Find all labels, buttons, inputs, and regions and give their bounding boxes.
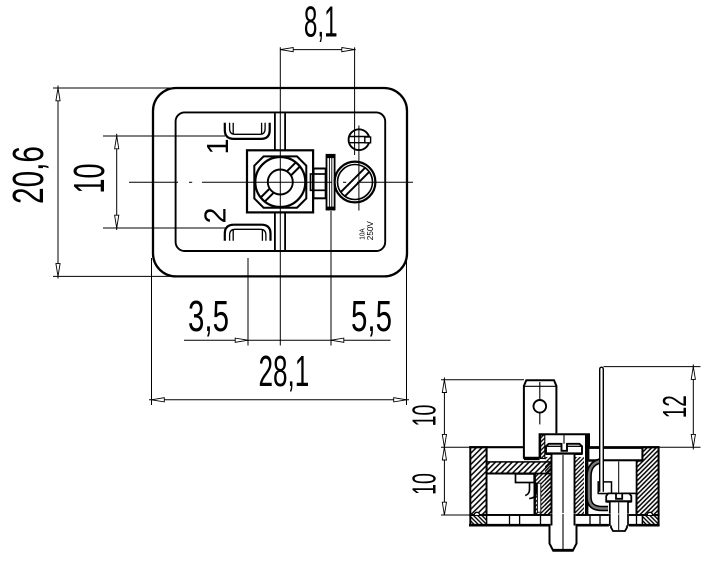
center channel wall right [284,113,286,150]
flat blade terminal pin [524,380,557,459]
small screw shaft [610,502,628,516]
central screw shaft [552,454,575,515]
svg-text:28,1: 28,1 [259,348,310,396]
dimension 10 front [103,135,225,137]
right wall hatched [637,447,659,515]
boss right thick wall [585,434,588,516]
wire clamp bracket [314,169,326,199]
dimension 10 upper side [441,379,524,381]
horizontal centerline of front view [129,181,178,183]
coil fixing screw outer circle [335,162,376,203]
blade bottom seat [524,457,540,460]
blade hole [539,382,541,424]
central screw head [546,444,582,454]
svg-text:10: 10 [405,405,442,427]
central screw outer circle [255,157,305,207]
contact 2 receptacle [225,225,271,241]
flange nub right [647,512,652,515]
shaft side hatch right [575,457,585,515]
flange detail lines [509,515,511,525]
svg-text:8,1: 8,1 [304,0,338,47]
dimension 12 [604,366,701,368]
cavity step block [516,474,535,483]
small screw end [611,526,627,532]
cavity right wall hatch [534,473,551,515]
svg-text:250V: 250V [365,221,375,240]
contact 1 receptacle [225,123,270,139]
svg-text:12: 12 [656,395,693,418]
central screw inner circle [268,170,293,195]
cavity contact hook [525,483,529,496]
flange screw pass-through small [609,514,629,527]
svg-text:1: 1 [200,139,235,155]
front view inner face rectangle [176,112,386,251]
front view connector body outer housing [153,88,407,276]
vertical centerline of front view [279,47,281,345]
right cavity [602,461,637,494]
screws vertical centerline [358,126,360,211]
top right step region [589,448,643,461]
dimension 10 lower side [441,514,470,516]
bottom flange [470,515,658,525]
central screw threaded end [550,526,577,551]
side view top left edge [469,446,524,448]
flange nub left [474,512,479,515]
svg-text:10: 10 [405,473,442,495]
coil contact curved strip [589,461,608,509]
side view body left wall hatched [470,447,486,515]
coil screw slot [345,172,370,197]
flange right hatch square [642,515,658,525]
coil fixing screw inner circle [338,165,373,200]
svg-text:5,5: 5,5 [351,293,392,341]
svg-text:10: 10 [66,164,114,194]
long round pin [600,367,604,492]
left cavity [487,474,535,515]
central screw slot diagonals [265,167,300,202]
central octagon [254,156,306,207]
small screw head [606,493,631,501]
cavity step blocks [598,482,611,494]
small fixing screw circle [349,129,370,150]
boss left hatch strip [541,435,545,459]
flange left hatch square [470,515,486,525]
dimension 20,6 [53,87,176,89]
dimension 3,5 and 5,5 [247,258,249,346]
dimension 28,1 [151,258,153,405]
svg-text:2: 2 [198,208,233,224]
side view top hatch band [487,462,552,474]
screw boss housing [540,434,589,460]
central terminal block square [247,150,313,212]
side view top right edge [589,446,660,448]
shaft side hatch left [545,457,552,515]
svg-text:20,6: 20,6 [5,146,53,204]
flange screw pass-through central [550,514,575,527]
cavity wall slot [537,483,540,512]
svg-text:3,5: 3,5 [188,293,229,341]
clamp bar [327,155,335,210]
center channel wall left [274,113,276,150]
dimension 8,1 [354,47,356,155]
